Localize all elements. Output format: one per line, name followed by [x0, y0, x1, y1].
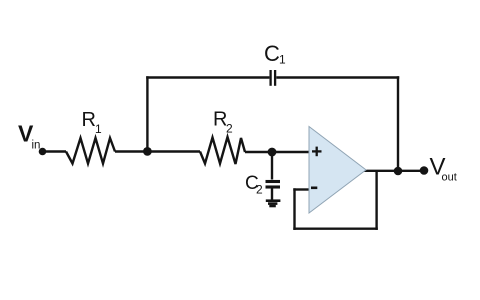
node Vin terminal	[39, 148, 47, 156]
wire C2 to ground	[271, 189, 273, 200]
wire stub to - input	[293, 188, 309, 190]
node B junction	[268, 148, 277, 157]
wire node A up to C1 row	[146, 76, 148, 151]
svg-text:2: 2	[256, 183, 263, 197]
wire R1 to R2	[115, 150, 200, 152]
op-amp + pin mark	[312, 147, 322, 157]
svg-text:in: in	[32, 140, 41, 152]
capacitor C2	[266, 182, 281, 188]
svg-text:C: C	[264, 41, 280, 66]
node C output junction	[394, 167, 403, 176]
wire Vin to R1	[44, 150, 66, 152]
wire C1 left segment	[146, 76, 269, 78]
svg-text:2: 2	[226, 122, 233, 136]
capacitor C1	[271, 70, 276, 86]
op-amp U1	[309, 127, 366, 214]
wire node B down to C2	[271, 152, 273, 180]
wire feedback up to - input	[293, 188, 295, 230]
resistor R2	[200, 137, 245, 164]
wire down to output node	[397, 76, 399, 171]
wire C1 right segment	[276, 76, 399, 78]
svg-text:1: 1	[95, 122, 102, 136]
wire feedback down from output	[375, 171, 377, 230]
svg-text:out: out	[442, 172, 457, 184]
resistor R1	[66, 138, 115, 164]
svg-text:R: R	[82, 109, 96, 131]
wire R2 to op-amp + input	[245, 151, 309, 153]
svg-text:1: 1	[279, 53, 286, 67]
wire feedback bottom horizontal	[293, 227, 378, 229]
wire op-amp output to Vout	[363, 170, 424, 172]
ground	[266, 201, 281, 206]
op-amp - pin mark	[311, 187, 317, 190]
node Vout terminal	[420, 166, 429, 175]
node A junction	[143, 147, 152, 156]
